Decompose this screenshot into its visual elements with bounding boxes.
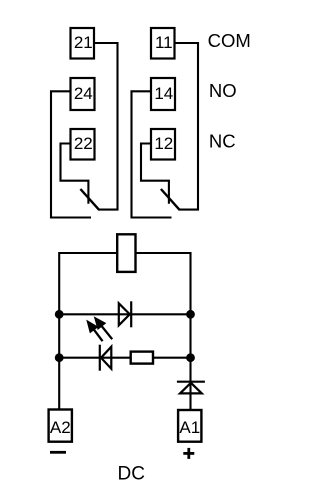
LED arrow 2 [95,318,113,340]
coil [117,234,135,272]
resistor R1 on lower rail [131,352,153,364]
wire 24 to NO contact (pole 2) [51,91,91,217]
svg-text:NC: NC [209,131,236,152]
terminal box 24 [71,78,95,110]
wire rail lower (LED + resistor branch) [59,357,190,359]
svg-text:A2: A2 [50,418,71,437]
switch blade pole 1 [161,189,179,210]
terminal box A2 [49,410,72,442]
svg-text:11: 11 [155,33,173,52]
svg-text:COM: COM [208,30,251,51]
svg-text:21: 21 [74,33,93,52]
junction dot lower-right [186,353,195,362]
wire 11 to blade pivot (pole 1 common) [175,43,199,210]
terminal box 11 [151,28,175,59]
plus sign [183,448,194,459]
wire 12 to NC contact (pole 1) [141,144,169,204]
terminal box 22 [71,129,95,160]
svg-text:NO: NO [209,80,237,101]
terminal box 12 [151,129,175,160]
terminal box A1 [178,410,201,442]
junction dot upper-right [186,310,195,319]
LED D2 on lower rail [100,345,112,371]
svg-text:DC: DC [118,463,145,484]
wire coil left to A2 branch [59,253,117,410]
terminal box 14 [151,78,175,110]
wire rail upper (suppression diode branch) [59,313,190,315]
LED arrow 1 [87,321,102,341]
diode D1 on upper rail [119,301,131,327]
wire 21 to blade pivot (pole 2 common) [94,43,118,210]
junction dot upper-left [55,310,64,319]
diode D3 (polarity protection, vertical near A1) [177,382,205,394]
terminal box 21 [71,28,95,59]
minus sign [50,451,66,454]
svg-text:22: 22 [74,134,93,153]
svg-text:12: 12 [154,134,173,153]
wire 14 to NO contact (pole 1) [132,91,172,217]
svg-text:A1: A1 [179,418,200,437]
svg-text:14: 14 [154,84,173,103]
switch blade pole 2 [80,189,98,210]
wire 22 to NC contact (pole 2) [61,144,89,204]
svg-text:24: 24 [74,84,93,103]
junction dot lower-left [55,353,64,362]
wire coil right to A1 branch [136,253,191,410]
